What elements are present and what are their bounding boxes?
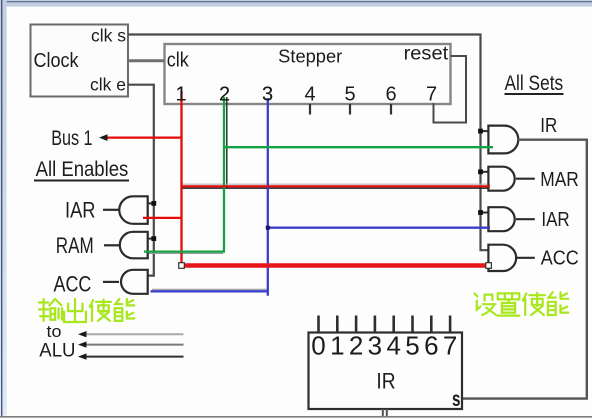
- arrowhead Bus 1: [99, 134, 108, 141]
- svg-text:4: 4: [386, 331, 400, 361]
- svg-text:7: 7: [426, 84, 437, 106]
- wire step1 red vertical: [180, 91, 182, 266]
- svg-text:1: 1: [330, 331, 344, 361]
- svg-text:3: 3: [368, 331, 382, 361]
- to ALU arrow 3: [85, 356, 184, 358]
- IR register box: [309, 333, 463, 410]
- wire reset loop from stepper pin 7: [434, 56, 467, 123]
- frame bottom line: [0, 416, 592, 418]
- svg-text:clk: clk: [167, 50, 190, 72]
- wire IAR gate output: [103, 209, 119, 211]
- stub stepper pin 5: [349, 104, 351, 115]
- wire blue to ACC enable gate: [151, 290, 268, 292]
- svg-text:IR: IR: [376, 368, 395, 393]
- svg-text:reset: reset: [404, 44, 449, 65]
- svg-text:6: 6: [424, 331, 438, 361]
- svg-text:5: 5: [405, 331, 419, 361]
- frame top inner line: [0, 1, 592, 2]
- enable gate ACC (left): [121, 270, 148, 294]
- svg-text:ALU: ALU: [39, 341, 75, 362]
- junction dot IR set: [478, 129, 483, 134]
- enable gate IAR (left): [119, 196, 147, 224]
- svg-text:ACC: ACC: [54, 272, 92, 297]
- set gate IAR (right): [488, 207, 514, 231]
- wire ACC set gate output: [516, 257, 535, 259]
- svg-text:IAR: IAR: [65, 198, 96, 223]
- stepper box U_STEP: [165, 44, 451, 104]
- svg-text:s: s: [452, 388, 461, 411]
- junction dot MAR set: [478, 169, 483, 174]
- svg-text:All Enables: All Enables: [36, 158, 129, 181]
- wire Bus 1 red: [103, 137, 183, 139]
- stub IAR gate top input: [147, 202, 154, 204]
- stub stepper pin 2 black: [226, 97, 228, 188]
- gray wire above red step2 row: [182, 183, 490, 185]
- annotation 设置使能 (set enable): [474, 292, 568, 315]
- svg-text:MAR: MAR: [540, 168, 579, 191]
- wire clk (clock to stepper): [128, 59, 165, 62]
- stub stepper pin 6: [390, 104, 392, 115]
- svg-text:ACC: ACC: [541, 247, 579, 270]
- to ALU arrow 1: [85, 333, 184, 335]
- svg-text:2: 2: [349, 331, 363, 361]
- set gate MAR (right): [488, 167, 514, 191]
- underline All Enables: [34, 180, 129, 182]
- wire green to RAM enable gate: [144, 250, 225, 252]
- wire step3 blue vertical: [267, 98, 269, 296]
- handle left of thick red wire: [179, 263, 185, 269]
- svg-text:6: 6: [385, 84, 396, 106]
- wire red to IAR enable gate: [143, 217, 182, 219]
- frame left band: [0, 0, 7, 416]
- svg-text:Bus 1: Bus 1: [51, 127, 92, 150]
- svg-text:3: 3: [262, 84, 273, 106]
- svg-text:clk e: clk e: [90, 75, 126, 95]
- svg-text:to: to: [47, 322, 62, 341]
- svg-text:1: 1: [175, 84, 186, 106]
- svg-text:Clock: Clock: [34, 50, 80, 72]
- wire clk e (clock to left gate column): [128, 85, 154, 276]
- wire clk s (clock to right gate column): [128, 35, 489, 251]
- bit ticks above IR register: [319, 316, 451, 333]
- stub below IR register: [383, 409, 387, 416]
- set gate ACC (right): [488, 245, 516, 271]
- svg-text:2: 2: [219, 84, 230, 106]
- frame top bar: [0, 0, 592, 7]
- gray wire under green RAM row: [146, 252, 223, 254]
- svg-text:Stepper: Stepper: [278, 47, 342, 67]
- stub IR gate top input: [481, 130, 490, 132]
- svg-text:7: 7: [443, 331, 457, 361]
- gray wire above blue ACC row: [152, 288, 267, 290]
- svg-text:IR: IR: [540, 114, 557, 137]
- junction dot IAR enable: [151, 201, 156, 206]
- enable gate RAM (left): [120, 232, 148, 258]
- wire green to IR set gate: [224, 146, 493, 148]
- set gate IR (right): [488, 126, 518, 154]
- wire ACC gate output: [103, 281, 119, 283]
- black wire under red step2 row: [182, 187, 490, 189]
- svg-text:0: 0: [311, 331, 325, 361]
- junction blue T: [266, 226, 270, 230]
- svg-text:All Sets: All Sets: [505, 72, 564, 95]
- stub IAR set gate top input: [481, 212, 490, 214]
- clock box U_CLK: [31, 25, 129, 97]
- wire IR gate output to IR register s: [462, 140, 587, 399]
- svg-text:4: 4: [304, 84, 315, 106]
- handle right of thick red wire: [486, 263, 492, 269]
- svg-text:RAM: RAM: [56, 233, 94, 258]
- wire MAR gate output: [516, 178, 535, 180]
- wire blue to IAR set gate: [268, 227, 490, 229]
- svg-text:IAR: IAR: [541, 208, 569, 231]
- svg-text:clk s: clk s: [91, 26, 126, 46]
- stub MAR gate top input: [481, 171, 490, 173]
- stub stepper pin 4: [309, 104, 311, 115]
- wire RAM gate output: [104, 244, 119, 246]
- to ALU arrow 2: [85, 344, 184, 346]
- svg-text:5: 5: [344, 84, 355, 106]
- wire IAR set gate output: [516, 218, 535, 220]
- junction dot IAR set: [478, 210, 483, 215]
- wire red to MAR set gate: [182, 185, 491, 187]
- stub RAM gate top input: [147, 238, 154, 240]
- wire thick red to ACC set gate: [182, 263, 489, 268]
- annotation 输出使能 (output enable): [39, 299, 134, 322]
- wire step2 green vertical: [223, 97, 225, 251]
- junction dot RAM enable: [151, 236, 156, 241]
- frame left dark line: [1, 0, 2, 417]
- underline All Sets: [505, 93, 564, 95]
